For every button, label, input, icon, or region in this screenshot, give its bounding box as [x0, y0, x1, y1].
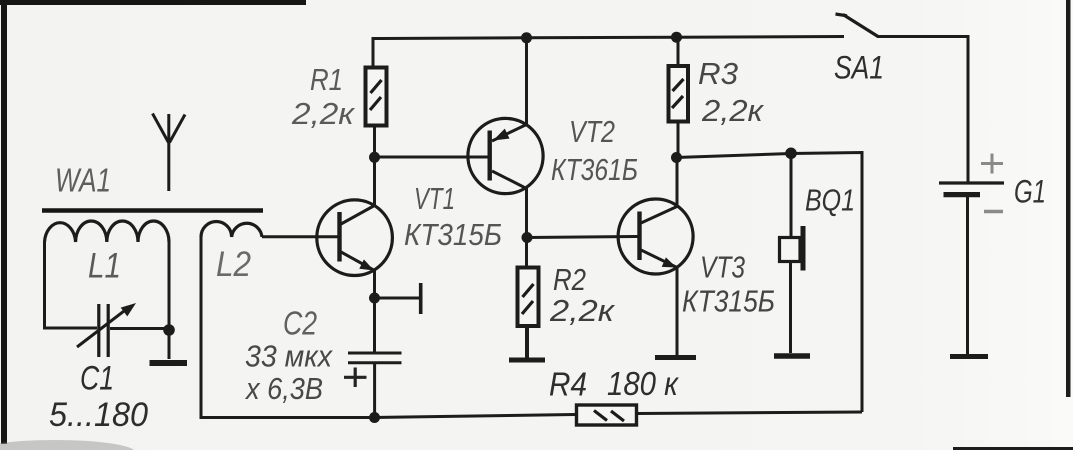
buzzer BQ1 [780, 226, 806, 271]
resistor R2 [518, 268, 539, 327]
wire bottom rail right of R4 [638, 412, 862, 414]
svg-text:SA1: SA1 [834, 50, 884, 86]
svg-text:5...180: 5...180 [49, 396, 148, 434]
svg-text:R1: R1 [310, 62, 343, 97]
paper smudge bottom-left [0, 440, 135, 450]
node dots [163, 32, 797, 423]
inductor L1 [45, 221, 170, 242]
svg-text:2,2к: 2,2к [701, 93, 764, 128]
wire node A to VT2 base [375, 156, 489, 159]
wire VT3 emitter to ground [676, 267, 679, 355]
wire node D to C2 [373, 298, 376, 352]
ground bar (VT3) [655, 355, 696, 360]
C2 polarity plus [344, 368, 367, 388]
svg-text:КТ315Б: КТ315Б [682, 284, 775, 319]
svg-text:C1: C1 [80, 360, 114, 398]
wire VT1 base from L2 [262, 235, 340, 238]
transistor VT1 [317, 200, 393, 276]
page border left edge [1, 0, 7, 444]
battery G1 [939, 154, 1004, 212]
switch SA1 [836, 14, 879, 37]
svg-text:R3: R3 [698, 56, 738, 91]
node C R3/VT3 [671, 152, 682, 163]
node rail/R3 [671, 32, 682, 43]
ground bar (BQ1) [774, 353, 810, 359]
wire VT2 collector to node B [525, 188, 528, 267]
svg-text:2,2к: 2,2к [549, 293, 616, 328]
page border bottom-right edge [953, 447, 1073, 450]
ground bar (L1/C1) [150, 360, 188, 366]
wire top rail [373, 37, 844, 67]
page border right edge [1066, 0, 1071, 397]
ground bar (R2) [509, 358, 545, 363]
wire BQ1 bottom to ground [789, 262, 792, 353]
wire SA1 out to corner and down to G1 [877, 37, 968, 183]
svg-text:R2: R2 [553, 262, 586, 297]
antenna bus line [42, 208, 263, 213]
node BQ1 tap [785, 148, 797, 160]
wire C2 bottom to rail [373, 364, 376, 418]
node B VT2/R2/VT3 [522, 232, 533, 243]
wire R3 bottom to node C [677, 123, 680, 158]
wire R2 bottom to ground [525, 327, 529, 358]
svg-text:VT1: VT1 [414, 181, 455, 216]
svg-text:VT3: VT3 [700, 250, 745, 285]
svg-text:КТ361Б: КТ361Б [551, 152, 638, 187]
node C2/bottom rail [369, 412, 380, 423]
svg-text:BQ1: BQ1 [805, 183, 855, 218]
resistor R1 [366, 68, 387, 126]
node A R1/VT1/VT2 [369, 152, 380, 163]
svg-text:33 мкх: 33 мкх [245, 339, 333, 374]
node E L1/C1/ground [163, 324, 175, 336]
node D VT1 emitter/C2 [369, 293, 380, 304]
wire L1 left leg and C1 bottom [45, 242, 98, 328]
wire node D to sensor bar [375, 297, 420, 300]
node rail/VT2 emitter [521, 32, 532, 43]
wire node E to ground [168, 330, 171, 359]
wire node B to VT3 base [527, 237, 638, 238]
wire G1 stem to ground [966, 196, 969, 354]
resistor R4 [577, 405, 637, 425]
antenna WA1 [153, 114, 186, 192]
wire VT2 emitter drop [525, 38, 528, 125]
svg-text:КТ315Б: КТ315Б [404, 217, 502, 252]
wire VT3 collector [676, 157, 679, 207]
wire VT1 emitter to node D [373, 270, 376, 298]
capacitor C2 [348, 353, 402, 363]
svg-text:C2: C2 [283, 305, 317, 342]
variable capacitor C1 [77, 303, 136, 357]
sensor contact bar [419, 283, 423, 314]
resistor R3 [669, 66, 689, 122]
transistor VT3 [618, 199, 693, 274]
wire node C to right corner down to rail [676, 153, 862, 413]
svg-text:180 к: 180 к [607, 365, 679, 402]
svg-text:G1: G1 [1014, 174, 1046, 210]
transistor VT2 [468, 118, 543, 193]
svg-text:VT2: VT2 [569, 114, 615, 149]
wire C1 right to node E [110, 327, 169, 330]
page border top edge [0, 0, 306, 5]
svg-text:L1: L1 [88, 247, 121, 286]
svg-text:х 6,3В: х 6,3В [244, 371, 323, 406]
svg-text:2,2к: 2,2к [291, 96, 356, 131]
svg-text:WA1: WA1 [55, 162, 111, 199]
wire R3 top [677, 37, 680, 66]
svg-text:R4: R4 [549, 366, 587, 403]
wire BQ1 top [790, 154, 793, 237]
wire R1 bottom to node A and to VT1 collector [373, 125, 376, 206]
wire L1 right leg [168, 242, 171, 330]
svg-text:L2: L2 [216, 245, 251, 284]
wire bottom rail left [201, 237, 575, 418]
inductor L2 [201, 222, 262, 238]
ground bar (G1) [950, 354, 988, 359]
